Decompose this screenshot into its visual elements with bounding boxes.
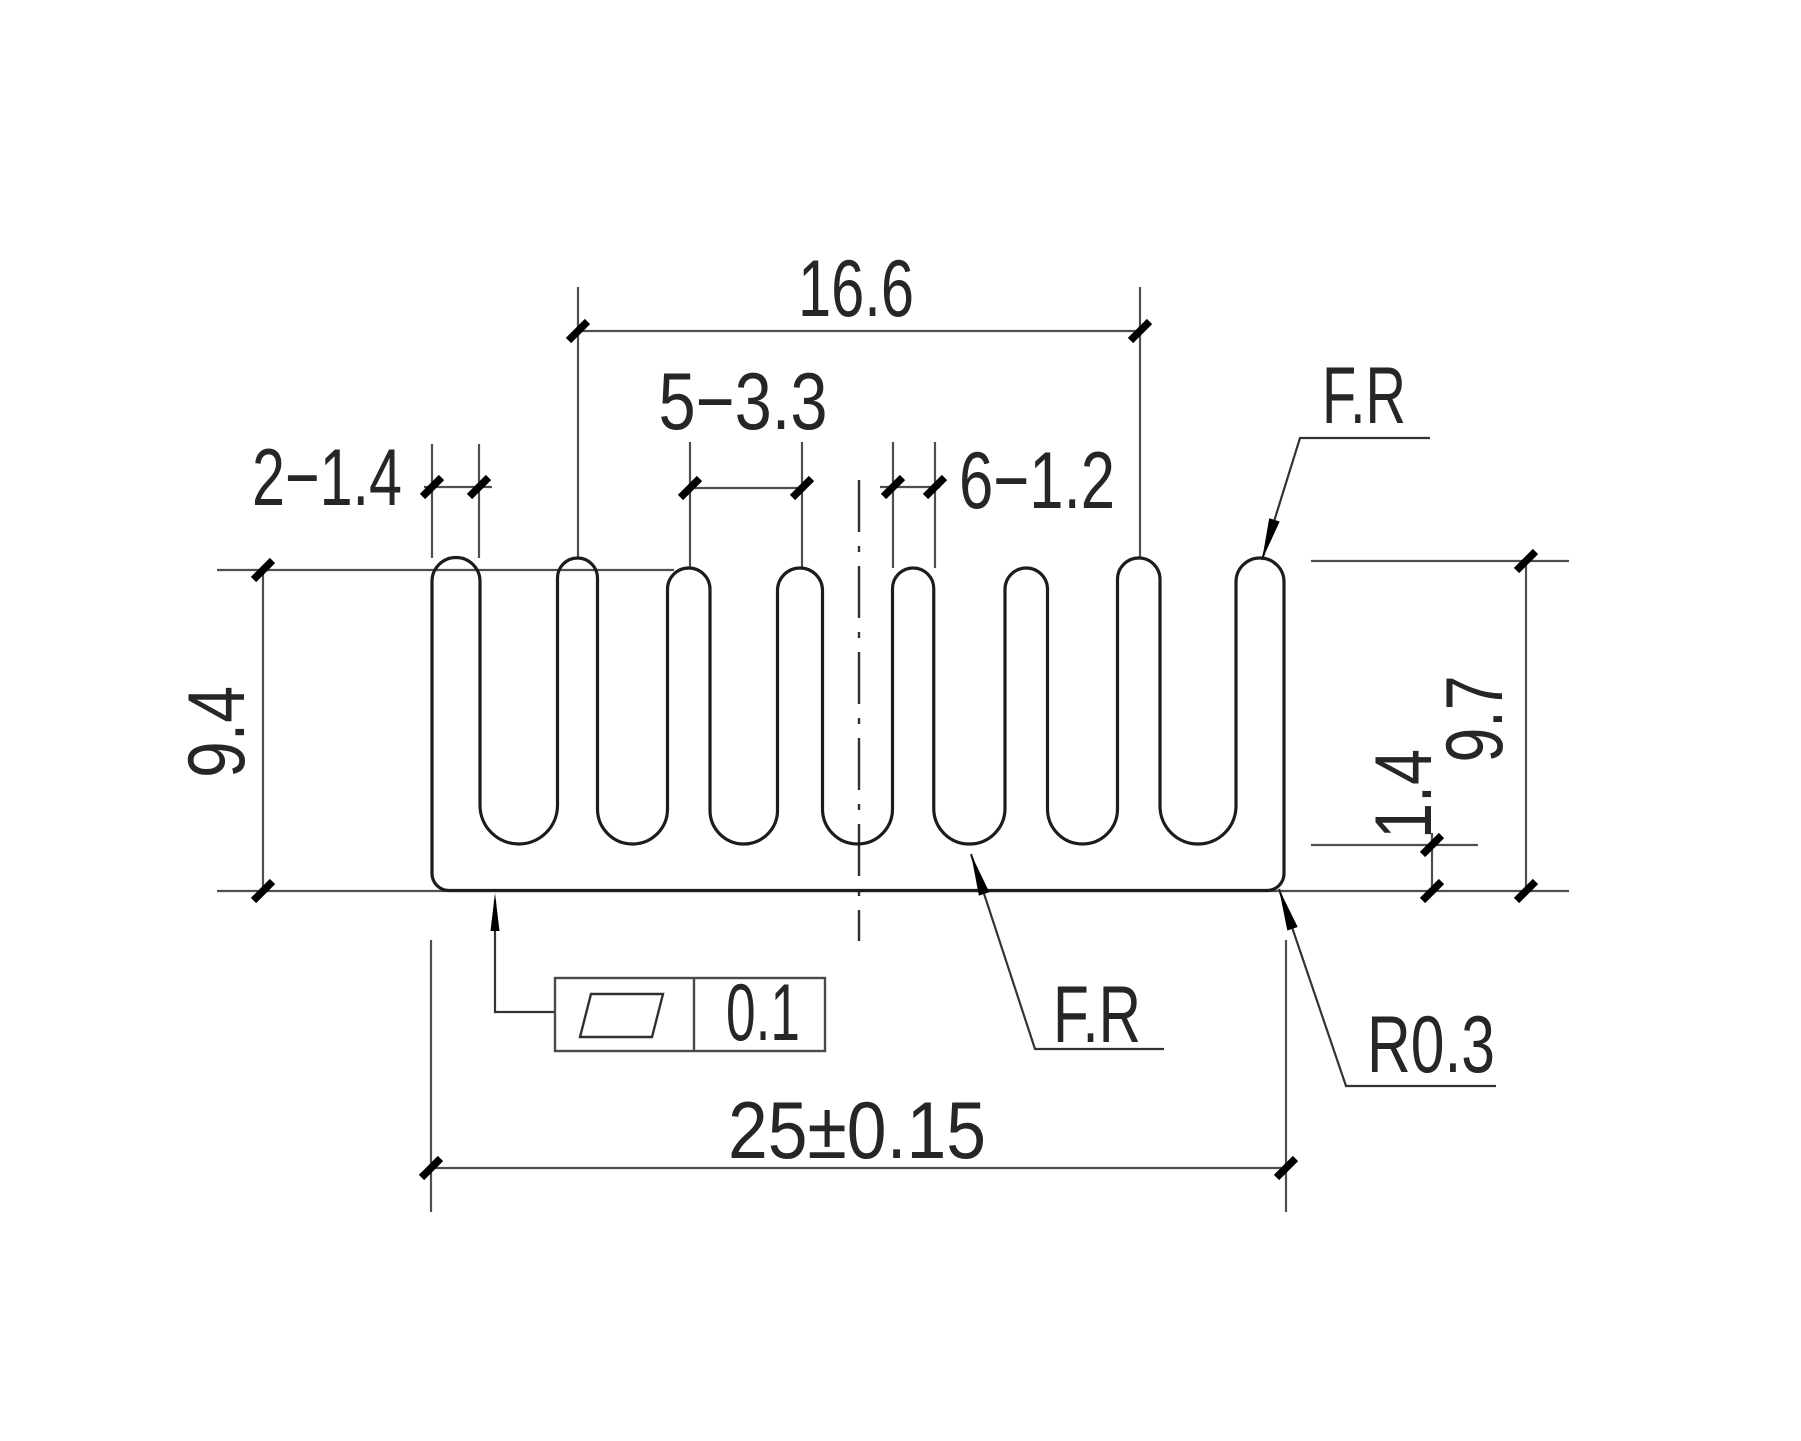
svg-text:F.R: F.R bbox=[1053, 970, 1141, 1060]
svg-text:F.R: F.R bbox=[1322, 351, 1406, 441]
svg-text:9.4: 9.4 bbox=[172, 686, 262, 778]
svg-text:6−1.2: 6−1.2 bbox=[959, 436, 1115, 526]
svg-text:5−3.3: 5−3.3 bbox=[659, 357, 828, 447]
svg-text:2−1.4: 2−1.4 bbox=[252, 433, 402, 523]
svg-text:1.4: 1.4 bbox=[1359, 749, 1449, 839]
svg-text:0.1: 0.1 bbox=[726, 968, 800, 1058]
svg-text:16.6: 16.6 bbox=[798, 244, 914, 334]
svg-text:25±0.15: 25±0.15 bbox=[728, 1086, 986, 1176]
svg-text:R0.3: R0.3 bbox=[1367, 1000, 1495, 1090]
